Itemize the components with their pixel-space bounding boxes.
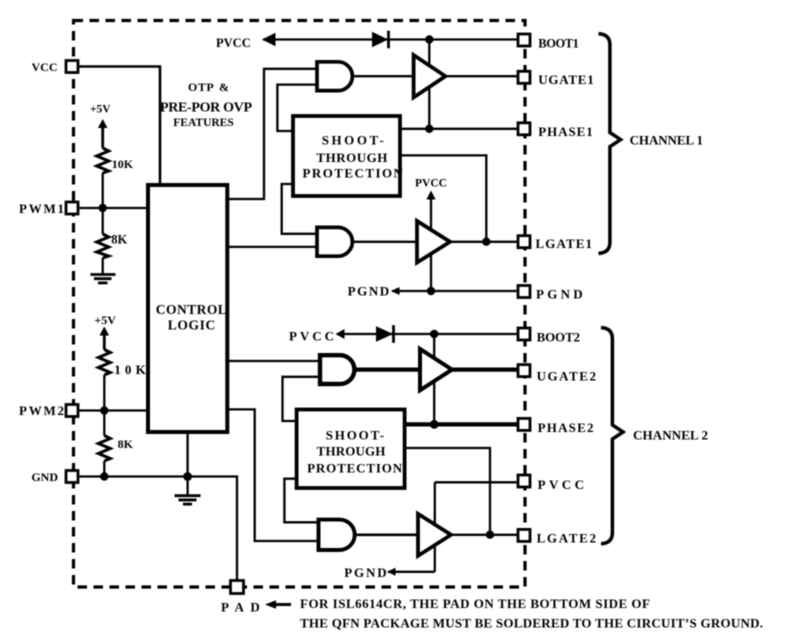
svg-text:SHOOT-: SHOOT- bbox=[326, 428, 385, 443]
pin GND bbox=[66, 471, 78, 483]
wire shoot-through 2 to AND gate A3 bbox=[283, 377, 321, 421]
svg-text:CONTROL: CONTROL bbox=[156, 302, 227, 317]
node PWM1 divider junction bbox=[99, 204, 107, 212]
pin UGATE2 bbox=[518, 365, 530, 377]
pin PWM2 bbox=[66, 405, 78, 417]
svg-text:PWM2: PWM2 bbox=[19, 403, 64, 418]
svg-text:+5V: +5V bbox=[94, 313, 116, 327]
pin UGATE1 bbox=[518, 71, 530, 83]
svg-text:PGND: PGND bbox=[348, 283, 390, 298]
power +5V arrow (channel 1 divider) bbox=[98, 119, 108, 128]
wire 10K to 8K through PWM1 node bbox=[102, 173, 104, 234]
pin PWM1 bbox=[66, 202, 78, 214]
svg-text:PVCC: PVCC bbox=[289, 329, 334, 344]
wire A4 output to driver U5 bbox=[355, 533, 418, 536]
pin LGATE2 bbox=[518, 529, 530, 541]
wire BOOT1 node to driver U2 top bbox=[428, 40, 430, 129]
wire shoot-through 2 to LGATE2 node bbox=[405, 448, 490, 535]
node LGATE1 junction bbox=[482, 238, 490, 246]
svg-text:THROUGH: THROUGH bbox=[317, 444, 386, 459]
svg-text:FOR ISL6614CR, THE PAD ON THE: FOR ISL6614CR, THE PAD ON THE BOTTOM SID… bbox=[300, 596, 650, 611]
brace channel 1 bbox=[599, 34, 621, 254]
wire PVCC pin to driver U5 bbox=[435, 481, 517, 483]
buffer U2 (UGATE1 driver) bbox=[414, 55, 446, 97]
diode D2 (bootstrap channel 2) bbox=[376, 326, 393, 342]
svg-text:PAD: PAD bbox=[221, 599, 260, 614]
pin PAD bbox=[231, 581, 244, 594]
wire BOOT2 node to driver U5 top bbox=[433, 334, 435, 424]
wire U4 to UGATE2 (thick) bbox=[452, 368, 517, 372]
svg-text:BOOT1: BOOT1 bbox=[538, 36, 579, 50]
pin LGATE1 bbox=[518, 236, 530, 248]
svg-text:PHASE1: PHASE1 bbox=[538, 124, 592, 139]
wire PVCC pin through U5 to PGND 2 bbox=[434, 482, 436, 572]
wire PVCC arrow through U3 to PGND bbox=[430, 198, 432, 292]
wire control logic to AND gate A2 bbox=[227, 246, 317, 248]
resistor 10K (channel 1) bbox=[97, 148, 109, 173]
node LGATE2 junction bbox=[486, 531, 494, 539]
svg-text:THROUGH: THROUGH bbox=[316, 150, 387, 165]
wire PGND channel 2 bbox=[388, 571, 435, 573]
ground (channel 1 divider) bbox=[91, 275, 116, 283]
svg-text:FEATURES: FEATURES bbox=[173, 117, 234, 129]
control logic box U1 bbox=[148, 185, 227, 432]
pin BOOT2 bbox=[518, 328, 530, 340]
svg-text:GND: GND bbox=[31, 470, 58, 484]
svg-text:PROTECTION: PROTECTION bbox=[307, 460, 403, 475]
wire 8K to GND rail bbox=[103, 461, 105, 477]
arrowhead PAD note (left with tail) bbox=[272, 603, 291, 606]
svg-text:CHANNEL 1: CHANNEL 1 bbox=[630, 133, 703, 148]
and-gate A4 (lower driver channel 2) bbox=[319, 520, 355, 550]
and-gate A3 (upper driver channel 2) bbox=[320, 355, 354, 384]
svg-text:PVCC: PVCC bbox=[415, 178, 447, 190]
wire U3 to LGATE1 bbox=[450, 241, 517, 243]
svg-text:BOOT2: BOOT2 bbox=[537, 330, 580, 345]
svg-text:1 0 K: 1 0 K bbox=[114, 362, 146, 377]
svg-text:PRE-POR OVP: PRE-POR OVP bbox=[160, 101, 252, 116]
wire PVCC to BOOT2 bbox=[338, 333, 517, 335]
node 8K GND junction bbox=[100, 472, 108, 480]
pin PHASE2 bbox=[518, 418, 530, 430]
pin PVCC bbox=[518, 475, 530, 487]
node PHASE2 junction bbox=[430, 420, 439, 429]
diode D1 (bootstrap channel 1) bbox=[372, 32, 388, 48]
svg-text:LOGIC: LOGIC bbox=[168, 318, 216, 333]
resistor 8K (channel 1) bbox=[97, 234, 109, 258]
svg-text:PWM1: PWM1 bbox=[19, 201, 64, 216]
svg-text:OTP &: OTP & bbox=[188, 80, 229, 94]
wire control logic to AND gate A3 bbox=[227, 360, 320, 362]
pin PHASE1 bbox=[518, 123, 530, 135]
svg-text:PGND: PGND bbox=[344, 565, 387, 580]
arrowhead PGND 2 (left) bbox=[387, 568, 396, 576]
ground (control logic) bbox=[175, 496, 201, 504]
wire PVCC to BOOT1 bbox=[263, 38, 517, 40]
node PGND junction bbox=[427, 287, 435, 295]
svg-text:VCC: VCC bbox=[32, 60, 58, 74]
resistor 8K (channel 2) bbox=[98, 436, 110, 462]
brace channel 2 bbox=[601, 328, 623, 544]
wire A1 output to driver U2 bbox=[352, 75, 413, 77]
IC boundary dashed box bbox=[74, 21, 526, 588]
svg-text:10K: 10K bbox=[112, 157, 134, 171]
pin BOOT1 bbox=[518, 34, 530, 46]
power +5V arrow (channel 2 divider) bbox=[100, 327, 110, 336]
wire PHASE1 bbox=[400, 128, 517, 130]
wire 10K to 8K through PWM2 node bbox=[103, 375, 105, 436]
shoot-through protection box 1 bbox=[293, 116, 400, 196]
arrowhead PVCC (left) bbox=[262, 33, 276, 46]
shoot-through protection box 2 bbox=[297, 410, 405, 489]
node BOOT2 junction bbox=[430, 330, 438, 338]
wire PGND channel 1 bbox=[392, 290, 517, 292]
power PVCC arrow into driver U3 bbox=[426, 191, 435, 200]
node PHASE1 junction bbox=[425, 125, 433, 133]
resistor 10K (channel 2) bbox=[98, 350, 110, 376]
wire GND rail to PAD bbox=[79, 477, 237, 581]
arrowhead PVCC 2 (left) bbox=[336, 329, 345, 339]
svg-text:THE QFN PACKAGE MUST BE SOLDER: THE QFN PACKAGE MUST BE SOLDERED TO THE … bbox=[300, 615, 763, 630]
wire shoot-through 2 to AND gate A4 bbox=[284, 479, 318, 523]
svg-text:PVCC: PVCC bbox=[538, 477, 584, 492]
label SHOOT-THROUGH PROTECTION 1 bbox=[302, 132, 403, 180]
svg-text:8K: 8K bbox=[118, 437, 134, 451]
wire control logic to AND gate A1 bbox=[227, 69, 317, 199]
wire U5 to LGATE2 bbox=[451, 534, 517, 536]
wire PHASE2 (thick) bbox=[405, 422, 517, 426]
buffer U3 (LGATE1 driver) bbox=[417, 221, 450, 263]
svg-text:LGATE1: LGATE1 bbox=[536, 236, 593, 251]
wire A3 output to driver U4 (thick) bbox=[354, 368, 420, 372]
wire PWM1 to control logic bbox=[79, 207, 148, 209]
svg-text:SHOOT-: SHOOT- bbox=[322, 132, 384, 147]
svg-text:PROTECTION: PROTECTION bbox=[302, 166, 403, 181]
wire shoot-through 1 to LGATE1 node bbox=[400, 155, 486, 241]
svg-text:PVCC: PVCC bbox=[216, 36, 251, 50]
pin PGND (channel 1) bbox=[518, 286, 530, 298]
wire shoot-through 1 to AND gate A2 bbox=[282, 184, 317, 234]
wire VCC to control logic bbox=[79, 67, 160, 186]
buffer U5 (LGATE2 driver) bbox=[418, 514, 451, 556]
wire PWM2 to control logic bbox=[79, 409, 148, 411]
wire U2 to UGATE1 bbox=[445, 75, 517, 77]
label OTP & PRE-POR OVP FEATURES bbox=[160, 80, 252, 129]
svg-text:PHASE2: PHASE2 bbox=[538, 420, 594, 435]
arrowhead PGND 1 (left) bbox=[391, 287, 400, 295]
wire control logic to ground bbox=[186, 432, 188, 495]
node BOOT1 junction bbox=[425, 35, 433, 43]
svg-text:+5V: +5V bbox=[90, 104, 111, 116]
and-gate A2 (lower driver channel 1) bbox=[317, 227, 352, 256]
pin VCC bbox=[66, 61, 78, 73]
node PWM2 divider junction bbox=[100, 406, 108, 414]
svg-text:CHANNEL 2: CHANNEL 2 bbox=[633, 428, 708, 443]
buffer U4 (UGATE2 driver) bbox=[420, 349, 452, 390]
label SHOOT-THROUGH PROTECTION 2 bbox=[307, 428, 403, 476]
and-gate A1 (upper driver channel 1) bbox=[317, 62, 352, 91]
node control ground junction bbox=[183, 472, 192, 481]
wire shoot-through 1 to AND gate A1 bbox=[277, 85, 317, 131]
wire 8K to ground bbox=[102, 258, 104, 274]
wire A2 output to driver U3 bbox=[352, 241, 417, 243]
svg-text:8K: 8K bbox=[111, 233, 127, 247]
svg-text:UGATE2: UGATE2 bbox=[537, 369, 596, 384]
svg-text:UGATE1: UGATE1 bbox=[538, 72, 593, 87]
wire control logic to AND gate A4 bbox=[227, 409, 319, 541]
